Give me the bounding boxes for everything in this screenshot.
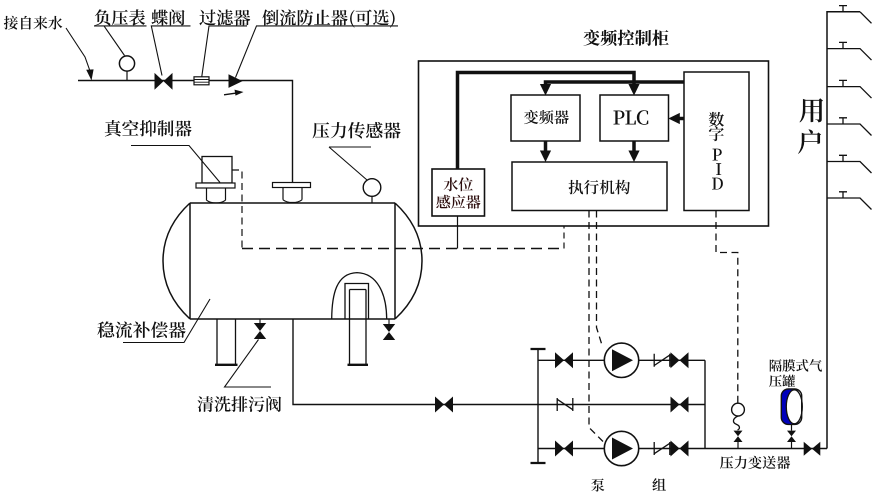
discharge collector pipe [704,360,706,448]
flex connector pump 2 [654,442,670,455]
label 过滤器 with underline and leaders [199,10,250,77]
dashed riser: level line up to actuator output [563,226,565,249]
label 稳流补偿器 with underline and leader [97,299,210,343]
label 用户 (users) vertical [798,98,823,154]
user branch tap 4 [827,118,872,136]
thick wire: level sensor to PLC top [458,73,635,170]
filter 过滤器 (hatched strainer box) [194,77,209,85]
vortex dome over tank outlet [332,273,387,319]
flex connector on bypass [557,398,573,411]
wire: main discharge line to riser [705,448,827,450]
tank 稳流补偿器 shell (horizontal vessel with D-shaped heads) [163,203,422,319]
wire: city water supply pipe, turns down to tank inlet [78,81,293,183]
wire: tank outlet down then right to pump suction header [293,319,538,405]
wire: pump branch 2 (bottom) [538,448,705,450]
label 压力传感器 with underline and leader [313,122,401,180]
vacuum suppressor 真空抑制器 (box + flange on tank top) [196,157,235,203]
pump 2 [604,431,638,465]
user branch tap 6 [827,192,872,210]
label 压力变送器 [720,456,790,469]
drain valve right [383,319,395,340]
dashed control line: actuator to bottom pump [589,211,603,442]
suction valve pump 1 [555,352,573,368]
thick arrow: PLC down to actuator [632,141,636,158]
box 数字PID (digital PID) [684,72,749,211]
dashed control line: PID to pressure transmitter [716,211,738,403]
label 变频控制柜 (cabinet title) [584,30,669,46]
outlet sleeve outer rect [345,284,369,320]
solid link: level sensor box to level line [457,216,459,249]
wire: pump branch 1 (top) [538,359,705,361]
suction valve pump 2 [555,441,573,457]
thick arrow: VFD down to actuator [544,141,548,158]
label 负压表 with underline and leader [94,9,147,55]
tank inlet flange [273,183,311,203]
box 执行机构 (actuator) [512,162,667,211]
label 真空抑制器 with underline and leader [105,120,220,182]
labels 隔膜式气 / 压罐 [770,359,822,372]
cabinet outer box [419,61,769,226]
tank left leg with foot [215,319,238,365]
wire: riser pipe to users [827,12,860,449]
butterfly valve 蝶阀 [155,73,173,90]
label 蝶阀 with underline and leaders [151,9,190,75]
flex connector pump 1 [654,354,670,367]
valve on tank outlet line [435,397,453,413]
box 水位感应器 (water level sensor) [432,169,485,216]
discharge valve pump 1 [671,352,689,368]
valve on bypass [671,397,689,413]
thick wire: PID to VFD top [546,82,685,91]
label 接自来水 with leader arrow [4,16,94,81]
drain valve left [254,319,266,339]
label 倒流防止器(可选) with underline and leader [236,9,399,77]
backflow preventer 倒流防止器 (solid triangle) [229,74,243,88]
wire: bypass middle branch [538,404,705,406]
discharge valve pump 2 [671,441,689,457]
user branch tap 1 [839,6,872,24]
box PLC [600,95,669,141]
dashed water level line across tank toward cabinet [242,248,564,250]
user branch tap 2 [827,42,872,60]
user branch tap 3 [827,80,872,98]
tank right leg (inner pipe) with foot [348,290,369,365]
pump 1 [604,343,638,377]
gauge 负压表 (vacuum gauge circle on stem) [119,56,134,81]
user branch tap 5 [827,155,872,173]
label 清洗排污阀 with overline and leader [198,340,282,413]
flow direction arrow under pipe [224,90,244,96]
suction header pipe with end caps [531,349,546,463]
dashed control line: actuator to top pump [597,211,602,344]
dashed link: vacuum suppressor to water level line [232,170,242,249]
labels 泵 组 (pump group) [591,478,666,492]
pressure sensor 压力传感器 (circle on tank top) [363,179,381,203]
pressure transmitter 压力变送器: circle, siphon loop, valve [732,403,745,448]
thick arrow: PID to PLC right side [678,117,684,121]
box 变频器 (VFD) [511,95,580,141]
valve on main line before riser [804,442,821,456]
